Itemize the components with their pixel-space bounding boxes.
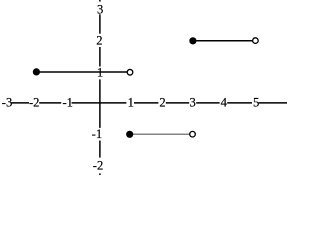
svg-text:2: 2	[159, 96, 165, 110]
x-axis segment between -3 and -2	[11, 102, 29, 104]
y-axis stub above label 3	[99, 0, 101, 2]
x-axis segment between 2 and 3	[166, 102, 189, 104]
segment B closed endpoint (filled dot) at (3,2)	[189, 37, 196, 44]
segment A closed endpoint (filled dot) at (-2,1)	[33, 68, 40, 75]
segment C open endpoint (open circle) at (3,-1)	[190, 131, 196, 137]
segment A open endpoint (open circle) at (1,1)	[127, 69, 133, 75]
y-axis segment between -1 and -2	[99, 141, 101, 158]
svg-text:1: 1	[128, 96, 134, 110]
x-axis segment between -2 and -1	[39, 102, 61, 104]
svg-text:-2: -2	[93, 158, 104, 172]
svg-text:3: 3	[97, 2, 103, 16]
svg-text:-2: -2	[29, 96, 40, 110]
step segment A line: y=1 from x=-2 to x=1	[36, 71, 130, 73]
y-axis segment between 2 and 1	[99, 47, 101, 67]
step segment C line: y=-1 from x=1 to x=3	[130, 133, 193, 135]
x-axis segment between 3 and 4	[196, 102, 219, 104]
y-axis stub below label -2	[99, 173, 101, 175]
svg-text:3: 3	[190, 96, 196, 110]
x-axis segment between 1 and 2	[134, 102, 158, 104]
svg-text:2: 2	[96, 34, 102, 48]
svg-text:4: 4	[221, 96, 228, 110]
svg-text:-3: -3	[2, 96, 13, 110]
y-axis segment between 3 and 2	[99, 14, 101, 33]
x-axis segment right of 5	[259, 102, 287, 104]
step segment B line: y=2 from x=3 to x=5	[193, 40, 256, 42]
segment C closed endpoint (filled dot) at (1,-1)	[126, 131, 133, 138]
svg-text:5: 5	[253, 96, 259, 110]
svg-text:-1: -1	[92, 127, 103, 141]
x-axis segment between 4 and 5	[227, 102, 252, 104]
svg-text:-1: -1	[62, 96, 73, 110]
segment B open endpoint (open circle) at (5,2)	[253, 38, 259, 44]
y-axis segment between 1 and -1 (through origin)	[99, 79, 101, 128]
svg-text:1: 1	[97, 65, 103, 79]
x-axis segment between -1 and 1 (through origin)	[72, 102, 127, 104]
